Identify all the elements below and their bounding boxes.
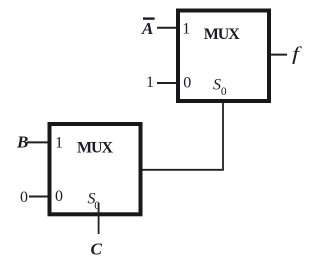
- input label A-bar: [141, 17, 155, 38]
- svg-text:MUX: MUX: [77, 140, 113, 157]
- svg-text:0: 0: [183, 74, 191, 91]
- svg-text:1: 1: [146, 74, 154, 91]
- output wire f: [270, 54, 287, 56]
- bottom multiplexer MUX box: [50, 124, 141, 214]
- wire A-bar to top MUX input 1: [157, 27, 177, 29]
- svg-text:1: 1: [55, 135, 63, 152]
- svg-text:A: A: [141, 19, 153, 38]
- svg-text:0: 0: [221, 86, 227, 98]
- svg-text:S: S: [213, 77, 221, 94]
- top multiplexer MUX box: [178, 11, 269, 102]
- top MUX select label S0: [213, 77, 227, 99]
- svg-text:0: 0: [20, 189, 28, 206]
- wire bottom MUX output to top MUX select S0: [142, 102, 223, 170]
- wire constant 0 to bottom MUX input 0: [29, 196, 48, 198]
- svg-text:B: B: [16, 133, 28, 152]
- wire C to bottom MUX select S0: [98, 203, 100, 234]
- svg-text:MUX: MUX: [204, 26, 240, 43]
- svg-text:1: 1: [182, 21, 190, 38]
- svg-text:C: C: [91, 240, 103, 259]
- bottom MUX select label S0: [88, 190, 101, 211]
- svg-text:f: f: [292, 44, 303, 65]
- wire constant 1 to top MUX input 0: [157, 82, 177, 84]
- svg-text:0: 0: [55, 188, 63, 205]
- wire B to bottom MUX input 1: [27, 141, 48, 143]
